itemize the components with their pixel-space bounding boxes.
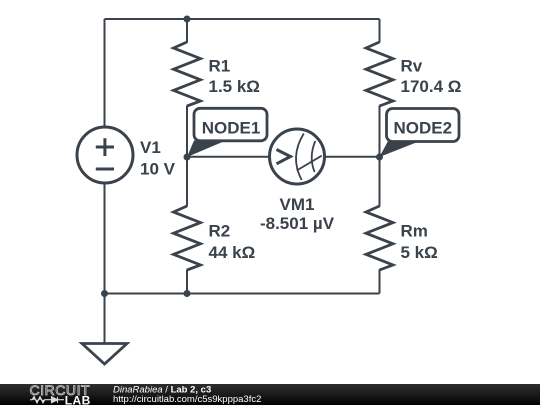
- ground: [82, 344, 127, 365]
- svg-text:10 V: 10 V: [140, 160, 176, 179]
- wire middle branch bottom: [186, 270, 188, 294]
- wire voltmeter to node2: [324, 156, 380, 158]
- svg-text:Rm: Rm: [401, 221, 428, 240]
- footer logo squiggle resistor-diode: [30, 397, 64, 403]
- wire node1 to voltmeter: [187, 156, 270, 158]
- svg-text:V1: V1: [140, 138, 161, 157]
- svg-text:NODE1: NODE1: [202, 119, 261, 138]
- svg-text:NODE2: NODE2: [394, 119, 453, 138]
- svg-text:Rv: Rv: [401, 57, 423, 76]
- svg-text:170.4 Ω: 170.4 Ω: [401, 77, 462, 96]
- footer bar: [0, 384, 540, 405]
- wire top rail: [105, 18, 380, 20]
- svg-text:VM1: VM1: [280, 195, 315, 214]
- junction dot bottom middle: [184, 290, 191, 297]
- svg-text:5 kΩ: 5 kΩ: [401, 243, 438, 262]
- junction dot top: [184, 16, 191, 23]
- node NODE2 callout: [380, 109, 460, 158]
- svg-text:R2: R2: [209, 221, 231, 240]
- node NODE1 callout: [187, 108, 267, 157]
- wire right vertical bottom: [379, 270, 381, 294]
- junction dot bottom left: [101, 290, 108, 297]
- svg-text:44 kΩ: 44 kΩ: [209, 243, 256, 262]
- wire left vertical upper: [104, 19, 106, 127]
- resistor R1: [174, 42, 201, 106]
- wire bottom rail: [105, 293, 380, 295]
- voltage source V1: [77, 127, 133, 183]
- wire middle branch center: [186, 106, 188, 207]
- wire right vertical top: [379, 19, 381, 43]
- wire middle branch top: [186, 19, 188, 43]
- svg-text:-8.501 µV: -8.501 µV: [260, 214, 335, 233]
- resistor Rv: [366, 42, 393, 106]
- svg-text:1.5 kΩ: 1.5 kΩ: [209, 77, 260, 96]
- junction dot node1: [184, 154, 191, 161]
- resistor Rm: [366, 206, 393, 270]
- svg-text:R1: R1: [209, 57, 231, 76]
- svg-text:LAB: LAB: [65, 393, 91, 405]
- junction dot node2: [376, 154, 383, 161]
- svg-text:http://circuitlab.com/c5s9kppp: http://circuitlab.com/c5s9kpppa3fc2: [113, 394, 261, 405]
- resistor R2: [174, 206, 201, 270]
- wire right vertical center: [379, 106, 381, 207]
- wire left vertical lower: [104, 183, 106, 343]
- voltmeter VM1: [270, 129, 325, 184]
